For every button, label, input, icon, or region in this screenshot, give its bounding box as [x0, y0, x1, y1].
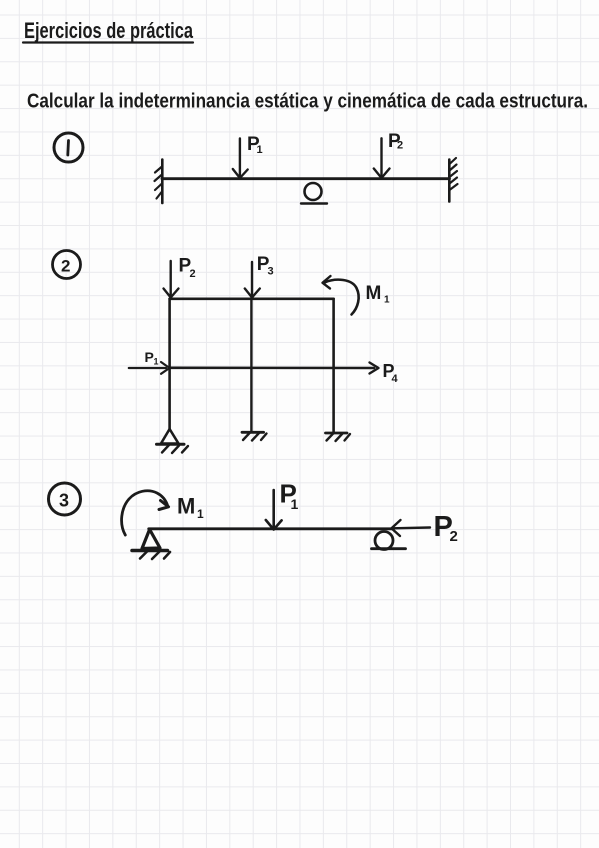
ground support middle (structure 2) — [242, 431, 264, 434]
svg-text:2: 2 — [61, 257, 70, 276]
svg-text:P: P — [145, 349, 154, 365]
frame middle beam with P4 arrow (structure 2) — [170, 366, 374, 369]
load arrow P1 (structure 3) — [272, 490, 275, 528]
frame left column (structure 2) — [168, 299, 171, 429]
roller support (structure 3) — [375, 532, 393, 550]
circled number 3 — [49, 483, 81, 515]
moment arrow M1 (structure 2) — [325, 280, 359, 315]
moment arrow M1 (structure 3) — [122, 491, 168, 535]
pin support (structure 2) — [161, 429, 179, 444]
svg-text:Calcular la indeterminancia es: Calcular la indeterminancia estática y c… — [27, 91, 588, 113]
svg-text:4: 4 — [392, 373, 399, 385]
svg-text:M: M — [366, 283, 382, 304]
beam structure 3 — [149, 527, 392, 530]
svg-text:1: 1 — [154, 357, 159, 367]
svg-text:1: 1 — [197, 507, 204, 521]
load arrow P3 (structure 2) — [251, 262, 253, 296]
svg-text:1: 1 — [384, 295, 390, 306]
roller support (structure 1) — [305, 183, 322, 200]
svg-text:M: M — [177, 494, 195, 519]
load arrow P1 (structure 1) — [239, 139, 241, 177]
ground support right (structure 2) — [326, 432, 348, 435]
svg-text:3: 3 — [59, 491, 69, 511]
svg-text:3: 3 — [268, 266, 274, 278]
load arrow P2 (structure 2) — [169, 261, 171, 296]
svg-text:1: 1 — [257, 144, 263, 156]
svg-text:2: 2 — [450, 528, 458, 545]
svg-text:2: 2 — [190, 268, 196, 280]
fixed wall support right (structure 1) — [448, 160, 451, 202]
load arrow P2 (structure 3) — [393, 526, 431, 529]
pin support (structure 3) — [142, 529, 160, 548]
svg-text:2: 2 — [397, 140, 403, 152]
load arrow P2 (structure 1) — [380, 138, 382, 176]
circled number 1 — [54, 133, 83, 162]
frame top beam (structure 2) — [170, 297, 334, 300]
svg-text:Ejercicios de práctica: Ejercicios de práctica — [24, 18, 194, 43]
title underline — [23, 41, 193, 43]
frame middle column (structure 2) — [250, 299, 252, 432]
load arrow P1 (structure 2) — [129, 367, 166, 369]
frame right column (structure 2) — [332, 299, 335, 433]
svg-text:1: 1 — [291, 496, 299, 512]
circled number 2 — [53, 251, 81, 279]
fixed wall support left (structure 1) — [161, 160, 164, 204]
beam structure 1 — [162, 177, 450, 180]
